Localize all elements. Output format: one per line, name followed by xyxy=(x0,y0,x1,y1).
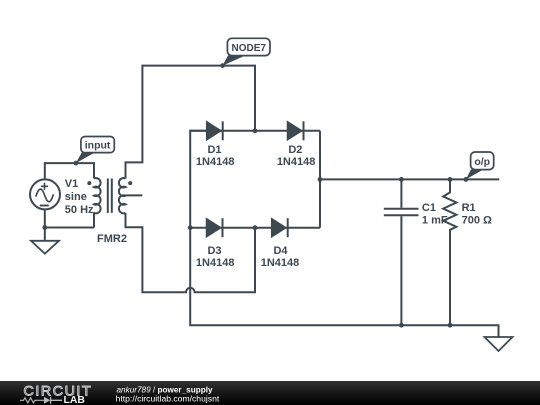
wire: secondary top up to NODE7 rail down to bridge top mid xyxy=(126,66,256,179)
node: V1 bottom junction xyxy=(42,225,47,230)
svg-text:D3: D3 xyxy=(207,245,221,257)
transformer secondary polarity dot xyxy=(128,181,132,185)
svg-text:http://circuitlab.com/chujsnt: http://circuitlab.com/chujsnt xyxy=(116,393,220,403)
node: C1 bottom junction xyxy=(399,323,404,328)
transformer core xyxy=(108,179,112,213)
svg-text:FMR2: FMR2 xyxy=(97,233,127,245)
svg-text:50 Hz: 50 Hz xyxy=(65,204,94,216)
svg-text:D1: D1 xyxy=(207,144,221,156)
node: R1 top junction xyxy=(448,177,453,182)
logo resistor squiggle xyxy=(20,398,38,403)
node: bridge top mid junction xyxy=(253,128,258,133)
node: bridge output junction xyxy=(318,177,323,182)
svg-text:1N4148: 1N4148 xyxy=(196,257,235,269)
flag NODE7 (callout) xyxy=(223,38,270,65)
svg-text:D4: D4 xyxy=(273,245,288,257)
transformer primary polarity dot xyxy=(87,181,91,185)
wire: bridge right rail xyxy=(319,131,321,228)
svg-text:D2: D2 xyxy=(288,144,302,156)
svg-text:1N4148: 1N4148 xyxy=(196,156,235,168)
label V1 sine 50 Hz xyxy=(65,178,94,216)
svg-text:LAB: LAB xyxy=(64,395,86,405)
svg-text:C1: C1 xyxy=(422,202,436,214)
diode D1 xyxy=(207,121,223,140)
node: NODE7 junction xyxy=(220,63,225,68)
node: C1 top junction xyxy=(399,177,404,182)
svg-text:sine: sine xyxy=(65,191,87,203)
svg-text:input: input xyxy=(85,140,111,152)
diode D4 xyxy=(272,218,288,237)
node: bridge left bottom junction xyxy=(188,225,193,230)
ground (left) xyxy=(31,228,59,254)
wire: bridge left rail + bottom ground rail xyxy=(190,131,498,337)
flag input (callout) xyxy=(76,137,114,164)
transformer secondary coil xyxy=(119,178,126,213)
diode D2 xyxy=(288,121,304,140)
svg-text:1N4148: 1N4148 xyxy=(277,156,316,168)
transformer FMR2 primary coil xyxy=(94,178,101,213)
node: o/p flag junction xyxy=(464,177,469,182)
ground (right) xyxy=(485,337,513,351)
transformer center tap stub xyxy=(126,194,143,196)
svg-text:R1: R1 xyxy=(462,202,476,214)
wire: bridge top row xyxy=(190,130,320,132)
wire: V1 top to transformer primary top (input net) xyxy=(45,163,94,180)
node: input flag junction xyxy=(74,161,79,166)
logo diode glyph xyxy=(38,399,44,401)
svg-text:1N4148: 1N4148 xyxy=(261,257,300,269)
svg-text:NODE7: NODE7 xyxy=(231,43,266,54)
svg-text:V1: V1 xyxy=(65,178,78,190)
wire: V1 bottom to transformer primary bottom xyxy=(45,209,94,227)
node: bridge bottom mid junction xyxy=(253,225,258,230)
diode D3 xyxy=(207,218,223,237)
node: R1 bottom junction xyxy=(448,323,453,328)
svg-text:700 Ω: 700 Ω xyxy=(462,215,492,227)
wire: bridge bottom row xyxy=(190,227,320,229)
svg-text:o/p: o/p xyxy=(474,156,490,168)
wire: output rail xyxy=(320,178,499,180)
voltage source V1 xyxy=(30,179,60,209)
capacitor C1 xyxy=(384,179,419,325)
resistor R1 xyxy=(443,179,456,325)
wire: secondary bottom down and over to bridge bottom mid (with hop) xyxy=(126,213,256,292)
flag o/p (callout) xyxy=(466,152,494,179)
